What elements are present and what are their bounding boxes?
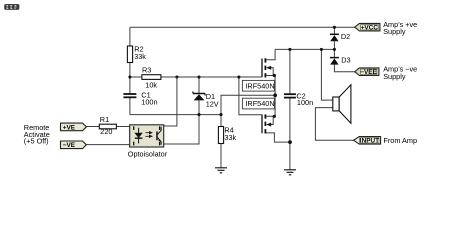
svg-text:100n: 100n: [141, 98, 157, 107]
svg-text:INPUT: INPUT: [360, 138, 379, 145]
svg-text:33k: 33k: [134, 52, 146, 61]
svg-text:−VE: −VE: [63, 142, 76, 149]
svg-text:10k: 10k: [145, 81, 157, 90]
svg-text:IRF540N: IRF540N: [245, 81, 274, 90]
svg-text:220: 220: [100, 127, 112, 136]
svg-text:D3: D3: [341, 55, 350, 64]
svg-text:33k: 33k: [224, 133, 236, 142]
svg-text:R1: R1: [100, 115, 109, 124]
svg-text:IRF540N: IRF540N: [245, 99, 274, 108]
svg-text:100n: 100n: [297, 98, 313, 107]
svg-text:Optoisolator: Optoisolator: [128, 149, 168, 158]
svg-text:−VEE: −VEE: [360, 69, 377, 76]
svg-text:From Amp: From Amp: [383, 136, 417, 145]
svg-text:+VCC: +VCC: [361, 25, 379, 32]
svg-text:12V: 12V: [206, 99, 219, 108]
svg-text:D2: D2: [341, 32, 350, 41]
svg-text:R3: R3: [142, 66, 151, 75]
svg-text:+VE: +VE: [63, 124, 76, 131]
svg-text:Supply: Supply: [383, 72, 406, 81]
svg-text:(+5 Off): (+5 Off): [24, 137, 49, 146]
svg-text:Supply: Supply: [383, 27, 406, 36]
